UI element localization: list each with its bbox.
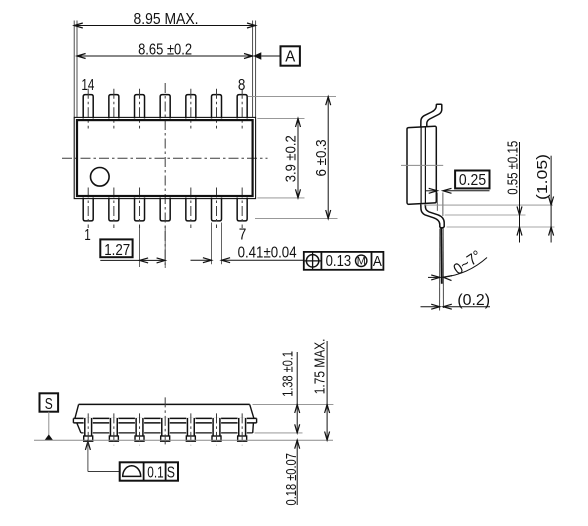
svg-text:1.75 MAX.: 1.75 MAX.: [312, 339, 329, 395]
svg-text:0.18 ±0.07: 0.18 ±0.07: [283, 453, 300, 505]
svg-text:(0.2): (0.2): [457, 292, 490, 309]
svg-text:1.38 ±0.1: 1.38 ±0.1: [280, 351, 297, 397]
svg-text:M: M: [357, 256, 366, 268]
svg-text:7: 7: [239, 227, 247, 244]
svg-text:6 ±0.3: 6 ±0.3: [313, 140, 330, 177]
svg-text:S: S: [45, 396, 53, 413]
svg-text:1.27: 1.27: [104, 242, 130, 259]
svg-text:8: 8: [238, 77, 246, 94]
svg-text:0.13: 0.13: [326, 253, 352, 270]
svg-text:S: S: [167, 464, 175, 481]
svg-text:3.9 ±0.2: 3.9 ±0.2: [283, 135, 300, 182]
svg-text:(1.05): (1.05): [534, 154, 551, 200]
svg-text:0.55 ±0.15: 0.55 ±0.15: [504, 141, 521, 195]
svg-text:A: A: [373, 254, 382, 270]
svg-text:8.95 MAX.: 8.95 MAX.: [134, 11, 199, 28]
svg-text:1: 1: [84, 227, 91, 244]
svg-text:0.1: 0.1: [147, 464, 163, 481]
svg-text:0.41±0.04: 0.41±0.04: [238, 245, 297, 262]
svg-text:8.65 ±0.2: 8.65 ±0.2: [138, 41, 192, 58]
svg-text:0.25: 0.25: [459, 172, 486, 189]
svg-text:14: 14: [81, 77, 94, 94]
svg-text:A: A: [285, 49, 296, 66]
